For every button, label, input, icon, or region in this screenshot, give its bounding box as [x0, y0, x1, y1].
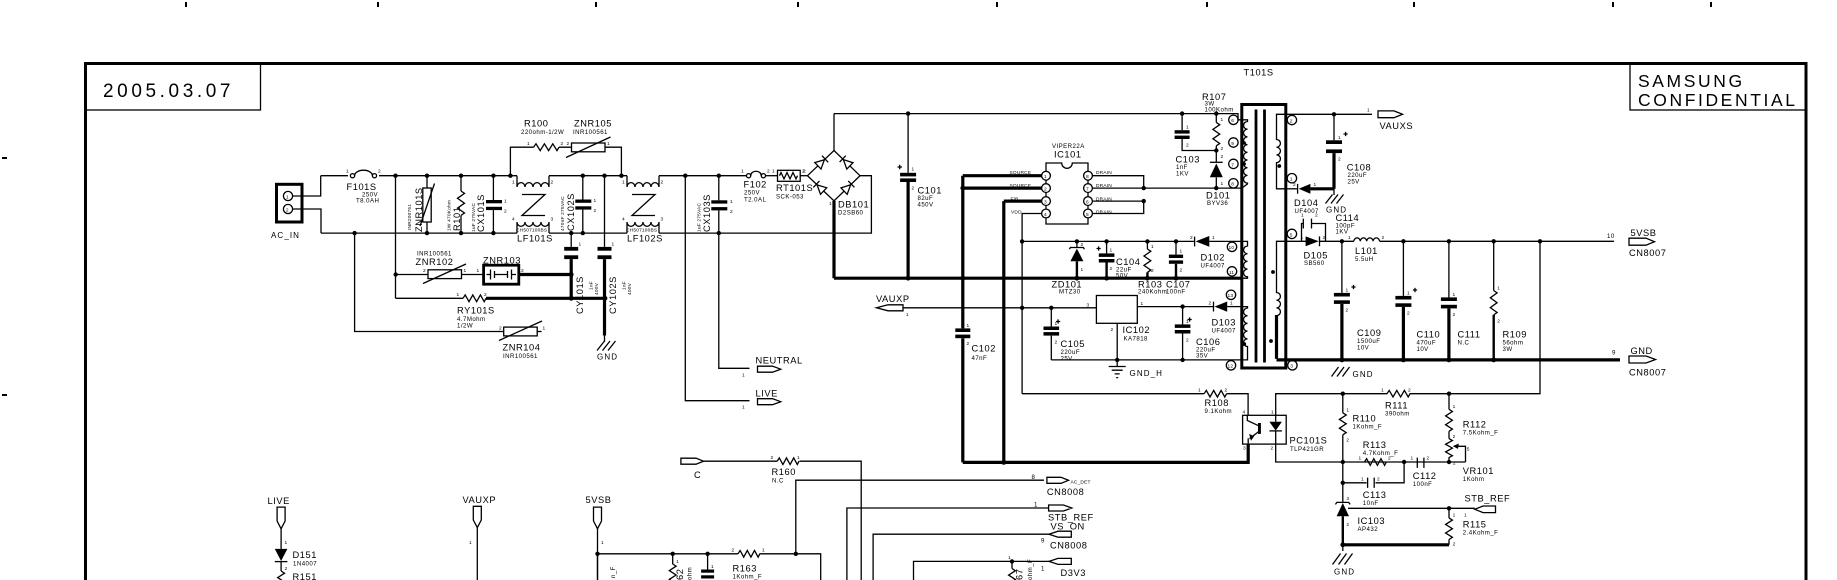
node C105 top: [1049, 306, 1053, 310]
svg-text:GND: GND: [597, 353, 618, 362]
diode D102: [1195, 236, 1242, 247]
net arrow AC_DET: [1047, 477, 1069, 483]
svg-text:2: 2: [594, 208, 597, 214]
svg-text:2: 2: [1110, 266, 1113, 272]
capacitor CX102S: [575, 176, 591, 233]
wire AC_IN pin1 to top rail: [293, 176, 321, 196]
svg-text:1: 1: [286, 194, 289, 200]
svg-text:2: 2: [1290, 118, 1293, 124]
resistor R108: [1204, 390, 1226, 397]
wire cap at 597 down: [597, 554, 599, 580]
svg-text:2: 2: [561, 141, 564, 147]
svg-text:1: 1: [1055, 321, 1058, 327]
svg-text:1: 1: [594, 198, 597, 204]
svg-text:2: 2: [1315, 213, 1318, 219]
node top rail x621 (R100 loop right): [619, 174, 623, 178]
DB101 diode top-right: [840, 156, 853, 169]
net arrow 5VSB: [1629, 238, 1655, 245]
node bold x571 on RY line: [569, 296, 574, 301]
svg-text:2: 2: [1346, 438, 1349, 444]
svg-text:62: 62: [675, 569, 685, 580]
transformer pin number 13: [1226, 290, 1235, 299]
resistor R109: [1490, 241, 1497, 360]
diode D151: [275, 549, 288, 571]
wire drain pin5: [1092, 201, 1143, 213]
IC101 pin 1: [1042, 171, 1051, 180]
svg-text:F102: F102: [744, 180, 767, 190]
svg-text:C111: C111: [1458, 330, 1481, 340]
svg-text:C: C: [694, 470, 701, 480]
svg-text:INR100561: INR100561: [573, 129, 608, 136]
svg-text:100nF: 100nF: [1166, 289, 1186, 296]
svg-text:SB560: SB560: [1304, 260, 1325, 267]
svg-text:ohm: ohm: [687, 567, 694, 580]
wire VDD pullup to R108: [1022, 393, 1204, 395]
node bold x605 on RY line: [603, 296, 608, 301]
node 5VSB bottom line: [595, 552, 599, 556]
svg-text:1: 1: [711, 564, 714, 570]
svg-text:1: 1: [1221, 181, 1224, 187]
svg-text:5: 5: [1290, 232, 1293, 238]
svg-text:VDD: VDD: [1011, 209, 1022, 215]
svg-text:3W: 3W: [1503, 346, 1513, 353]
svg-text:T2.0AL: T2.0AL: [744, 197, 767, 204]
wire 5VSB rail: [1380, 240, 1615, 242]
svg-text:CN8007: CN8007: [1629, 248, 1666, 258]
svg-text:8: 8: [1032, 474, 1036, 481]
AC_IN pin 1 circle: [283, 191, 292, 200]
node ZNR102 line x395: [394, 272, 398, 276]
svg-text:2: 2: [1453, 461, 1456, 467]
resistor R163: [738, 551, 760, 558]
choke LF102S bottom winding: [627, 222, 659, 233]
svg-text:1: 1: [1008, 555, 1011, 561]
svg-text:SOURCE: SOURCE: [1010, 183, 1032, 189]
svg-text:DB101: DB101: [838, 200, 869, 210]
wire bold ZNR103 to CY101S: [519, 273, 571, 276]
svg-text:1: 1: [469, 540, 472, 546]
node VDD-VAUXP junction: [1020, 306, 1024, 310]
svg-text:AC_DET: AC_DET: [1071, 480, 1091, 486]
wire bold FB to IC101 pin3: [1004, 200, 1042, 203]
node top rail x427: [425, 174, 429, 178]
transformer secondary winding pins 5-3: [1277, 241, 1286, 315]
svg-text:R163: R163: [733, 564, 757, 574]
svg-text:1: 1: [346, 169, 349, 175]
svg-text:1: 1: [1141, 301, 1144, 307]
svg-text:1: 1: [1453, 292, 1456, 298]
svg-text:2: 2: [967, 341, 970, 347]
node drain line D101: [1214, 186, 1218, 190]
svg-text:2: 2: [1180, 268, 1183, 274]
svg-text:D3V3: D3V3: [1061, 568, 1086, 578]
wire top rail LF101S to LF102S: [549, 175, 627, 177]
svg-text:1: 1: [1346, 408, 1349, 414]
transformer aux winding pins 10-11: [1242, 241, 1248, 278]
svg-text:10: 10: [1607, 233, 1615, 240]
svg-text:1: 1: [1348, 235, 1351, 241]
svg-text:LIVE: LIVE: [756, 389, 778, 399]
wire F102 to RT101S: [766, 175, 778, 177]
svg-text:ZNR103: ZNR103: [483, 256, 521, 266]
wire GND_H rail: [1051, 359, 1242, 361]
IC101 pin 4: [1042, 209, 1051, 218]
DB101 diode bottom-right: [841, 181, 854, 194]
IC101 pin 7: [1084, 184, 1093, 193]
svg-text:1: 1: [512, 180, 515, 186]
svg-text:1: 1: [1453, 404, 1456, 410]
varistor ZNR102: [423, 264, 466, 284]
svg-text:2: 2: [1346, 308, 1349, 314]
svg-text:1: 1: [742, 373, 745, 379]
svg-text:R160: R160: [772, 467, 796, 477]
capacitor C109: [1334, 241, 1356, 360]
wire R108 to opto collector: [1227, 394, 1249, 416]
wire NEUTRAL tap down: [719, 233, 750, 368]
node top rail x685 (LIVE tap): [683, 174, 687, 178]
wire divider top to 5VSB: [1449, 241, 1540, 393]
svg-text:1: 1: [1314, 182, 1317, 188]
wire bold IC103 cathode rail: [1343, 543, 1449, 546]
node GND rail C109: [1340, 358, 1345, 363]
wire top AC rail left of fuse: [321, 175, 348, 177]
diode D103: [1214, 302, 1242, 312]
PC101S phototransistor: [1247, 415, 1261, 444]
connector AC_IN body: [277, 184, 303, 222]
node divider mid R110: [1341, 460, 1345, 464]
svg-text:2: 2: [730, 209, 733, 215]
svg-text:13: 13: [1228, 293, 1234, 299]
svg-text:4: 4: [1243, 410, 1246, 416]
svg-text:2: 2: [1055, 340, 1058, 346]
capacitor C108 electrolytic: [1326, 114, 1348, 189]
svg-text:KA7818: KA7818: [1124, 336, 1149, 343]
svg-text:R101: R101: [452, 207, 462, 231]
node bold rail C107: [1174, 276, 1179, 281]
wire AC_IN pin2 to bottom rail: [293, 209, 321, 233]
node bold IC103 gnd: [1340, 542, 1345, 547]
svg-text:1: 1: [1411, 456, 1414, 462]
svg-text:1: 1: [601, 540, 604, 546]
capacitor C105 electrolytic: [1044, 308, 1061, 360]
svg-text:ZNR104: ZNR104: [503, 343, 541, 353]
svg-text:1KV: 1KV: [1336, 228, 1349, 235]
svg-text:3: 3: [551, 217, 554, 223]
diode D105: [1306, 236, 1354, 246]
svg-text:T101S: T101S: [1244, 68, 1274, 78]
svg-text:1nF: 1nF: [589, 281, 595, 290]
op-amp/SMPS IC101 VIPER22A body: [1046, 163, 1088, 224]
svg-text:C106: C106: [1196, 337, 1220, 347]
node C112 right VR101: [1447, 460, 1451, 464]
svg-text:2: 2: [551, 180, 554, 186]
transformer pin number 10: [1227, 242, 1236, 251]
svg-text:2: 2: [1497, 319, 1500, 325]
node bottom rail x461: [459, 231, 463, 235]
svg-text:2: 2: [423, 268, 426, 274]
resistor R167 pulldown: [1009, 561, 1016, 580]
node R112 top: [1447, 392, 1451, 396]
svg-text:1: 1: [579, 242, 582, 248]
svg-text:5VSB: 5VSB: [1631, 228, 1657, 238]
wire R100 bypass loop: [510, 147, 621, 176]
svg-text:1: 1: [1110, 248, 1113, 254]
wire bold RY101S to primary gnd: [486, 297, 605, 300]
svg-text:2: 2: [1377, 477, 1380, 483]
svg-text:VAUXP: VAUXP: [463, 495, 497, 505]
svg-text:25V: 25V: [1348, 179, 1361, 186]
svg-text:4: 4: [1044, 212, 1047, 218]
svg-text:2: 2: [499, 326, 502, 332]
node bold rail ZD101: [1075, 276, 1080, 281]
svg-text:2: 2: [1209, 301, 1212, 307]
svg-text:GND: GND: [1353, 370, 1374, 379]
AC_IN pin 2 circle: [283, 204, 292, 213]
transformer pin number 11: [1227, 267, 1236, 276]
fuse F102: [747, 171, 766, 178]
wire LIVE tap down: [685, 176, 749, 401]
svg-text:ZNR102: ZNR102: [416, 257, 454, 267]
regulator IC102 body: [1096, 296, 1137, 324]
node bottom rail x493: [491, 231, 495, 235]
capacitor C164: [701, 554, 714, 579]
svg-text:1/2W: 1/2W: [457, 323, 473, 330]
svg-text:50V: 50V: [1116, 273, 1129, 280]
svg-text:CN8008: CN8008: [1050, 541, 1087, 551]
wire C to R160: [704, 460, 778, 462]
arrester ZNR103: [484, 265, 519, 284]
svg-text:2: 2: [767, 169, 770, 175]
svg-text:2: 2: [378, 169, 381, 175]
wire ZNR102 left lead: [396, 274, 428, 276]
transformer pin number 2: [1287, 115, 1296, 124]
net arrow C: [681, 458, 704, 464]
net arrow VAUXP down: [473, 506, 481, 527]
wire opto LED anode up to divider: [1276, 444, 1466, 462]
svg-text:7: 7: [1086, 186, 1089, 192]
node R113-C112 mid: [1402, 460, 1406, 464]
svg-text:2: 2: [1044, 186, 1047, 192]
svg-text:1: 1: [772, 169, 775, 175]
svg-text:1KV: 1KV: [1176, 171, 1189, 178]
date box: [86, 64, 261, 111]
svg-text:2: 2: [1225, 388, 1228, 394]
svg-text:R109: R109: [1503, 330, 1527, 340]
wire DC plus line to transformer: [834, 114, 1242, 120]
svg-text:CX101S: CX101S: [476, 194, 486, 232]
capacitor CX103S: [711, 176, 727, 233]
svg-text:5: 5: [1467, 447, 1470, 453]
thermistor RT101S: [778, 170, 801, 181]
node R110 top: [1341, 392, 1345, 396]
svg-text:1: 1: [1221, 117, 1224, 123]
IC101 pin 8: [1084, 171, 1093, 180]
svg-text:10: 10: [1229, 245, 1235, 251]
node top rail x395: [393, 174, 397, 178]
ground GND primary: [597, 336, 616, 351]
svg-text:D103: D103: [1212, 318, 1236, 328]
resistor R100: [534, 144, 560, 151]
svg-text:2: 2: [1186, 338, 1189, 344]
svg-text:VR101: VR101: [1463, 466, 1494, 476]
svg-text:2: 2: [1221, 154, 1224, 160]
svg-text:2: 2: [1453, 542, 1456, 548]
zener ZD101: [1069, 241, 1084, 278]
svg-text:N.C: N.C: [1458, 339, 1470, 346]
wire bold opto emitter to FB net: [963, 444, 1250, 462]
ground GND secondary rail: [1332, 367, 1350, 377]
net arrow LIVE: [758, 399, 781, 405]
node drain junction pin6: [1142, 199, 1146, 203]
bridge rectifier DB101 diamond: [808, 151, 861, 201]
svg-text:CX103S: CX103S: [702, 194, 712, 232]
LF101S core Z symbol: [522, 195, 545, 216]
svg-text:2: 2: [661, 180, 664, 186]
wire VDD pin4 to rail: [1022, 214, 1041, 394]
node C164 top: [705, 552, 709, 556]
svg-text:IC101: IC101: [1054, 150, 1082, 160]
svg-text:1: 1: [906, 312, 909, 318]
svg-text:BYV36: BYV36: [1207, 200, 1228, 207]
svg-text:1: 1: [607, 141, 610, 147]
svg-text:IC102: IC102: [1123, 325, 1151, 335]
svg-text:25V: 25V: [1061, 356, 1074, 363]
svg-text:R113: R113: [1363, 440, 1387, 450]
svg-text:LF102S: LF102S: [627, 234, 663, 244]
resistor R101: [458, 176, 465, 233]
wire bold bridge minus down: [832, 201, 835, 278]
svg-text:400V: 400V: [594, 282, 600, 295]
wire pin2 to VAUXS: [1286, 113, 1372, 115]
capacitor C114: [1302, 219, 1326, 242]
svg-text:D151: D151: [293, 550, 317, 560]
svg-text:CN8008: CN8008: [1047, 487, 1084, 497]
svg-text:R110: R110: [1353, 414, 1377, 424]
svg-text:1: 1: [829, 201, 832, 207]
winding tap dot 7: [1243, 162, 1246, 165]
svg-text:12: 12: [1228, 364, 1234, 370]
SAMSUNG CONFIDENTIAL box: [1630, 64, 1806, 111]
wire STB_REF to arrow: [1449, 507, 1475, 509]
capacitor C111: [1441, 241, 1457, 360]
fuse F101S: [350, 170, 376, 178]
node bottom rail x582: [581, 231, 585, 235]
svg-text:1: 1: [1407, 291, 1410, 297]
svg-text:C113: C113: [1363, 490, 1387, 500]
svg-text:240Kohm: 240Kohm: [1138, 289, 1167, 296]
svg-text:UF4007: UF4007: [1201, 263, 1226, 270]
svg-text:250V: 250V: [744, 190, 761, 197]
wire vertical live-tap x395 to surge network: [395, 176, 397, 299]
svg-text:1: 1: [1497, 286, 1500, 292]
svg-text:1Kohm: 1Kohm: [1463, 476, 1485, 483]
svg-text:3: 3: [1044, 199, 1047, 205]
resistor R107: [1213, 114, 1220, 151]
svg-text:MTZ30: MTZ30: [1059, 289, 1081, 296]
node GND rail C110: [1401, 358, 1406, 363]
node rail ZD101: [1075, 239, 1079, 243]
svg-text:1: 1: [504, 199, 507, 205]
net arrow VAUXP (mid): [877, 305, 904, 311]
svg-text:1: 1: [676, 559, 679, 565]
svg-text:9: 9: [1231, 141, 1234, 147]
node GND rail R109: [1491, 358, 1496, 363]
svg-text:C104: C104: [1116, 257, 1140, 267]
svg-text:1: 1: [1081, 267, 1084, 273]
svg-text:2: 2: [1271, 446, 1274, 452]
svg-text:D2SB60: D2SB60: [838, 210, 864, 217]
wire bold primary return rail: [834, 277, 1242, 280]
svg-text:450V: 450V: [918, 202, 935, 209]
svg-text:11: 11: [1229, 270, 1235, 276]
svg-text:F/B: F/B: [1011, 196, 1019, 202]
svg-text:2: 2: [1190, 235, 1193, 241]
svg-text:n_F: n_F: [610, 566, 617, 578]
svg-text:N.C: N.C: [772, 478, 784, 485]
capacitor C110: [1395, 241, 1417, 360]
svg-text:1: 1: [1290, 177, 1293, 183]
shunt regulator IC103: [1335, 483, 1449, 545]
node C113 left junction: [1341, 481, 1345, 485]
svg-text:1: 1: [1359, 456, 1362, 462]
svg-text:LF101S: LF101S: [517, 234, 553, 244]
svg-text:9: 9: [1041, 538, 1045, 545]
svg-text:1: 1: [1041, 566, 1045, 573]
svg-text:6: 6: [1231, 118, 1234, 124]
node 5VSB rail C110: [1401, 239, 1405, 243]
svg-text:TLP421GR: TLP421GR: [1290, 446, 1324, 453]
svg-text:CONFIDENTIAL: CONFIDENTIAL: [1638, 90, 1798, 110]
net arrow VAUXS: [1378, 111, 1403, 118]
svg-text:8: 8: [1086, 174, 1089, 180]
svg-text:1Kohm_F: 1Kohm_F: [733, 574, 763, 580]
svg-text:SCK-053: SCK-053: [776, 194, 804, 201]
node bottom rail x427: [425, 231, 429, 235]
resistor RY101S: [463, 295, 486, 302]
svg-text:7: 7: [1231, 162, 1234, 168]
wire pin5 line: [1286, 240, 1306, 242]
capacitor C107: [1169, 241, 1183, 278]
svg-text:R108: R108: [1205, 398, 1229, 408]
IC101 pin 2: [1042, 184, 1051, 193]
node C101 top: [906, 111, 910, 115]
svg-text:INR100561: INR100561: [503, 353, 538, 360]
wire 5VSB bottom distribution line: [598, 554, 821, 580]
node AC_DET to 5VSB line: [794, 552, 798, 556]
wire bridge plus output up: [833, 114, 835, 151]
transformer core lines: [1256, 110, 1265, 363]
svg-text:2: 2: [912, 186, 915, 192]
svg-text:5.5uH: 5.5uH: [1355, 256, 1374, 263]
resistor R111: [1343, 390, 1449, 397]
node bottom rail x718: [717, 231, 721, 235]
node VDD rail junction: [1020, 239, 1024, 243]
capacitor C106 electrolytic: [1175, 307, 1192, 360]
svg-text:390ohm: 390ohm: [1385, 411, 1410, 418]
resistor R112: [1446, 394, 1453, 439]
svg-text:9: 9: [1612, 350, 1616, 357]
capacitor C104 electrolytic: [1097, 241, 1115, 278]
node GND_H IC102: [1115, 358, 1119, 362]
node snubber top line R107: [1214, 111, 1218, 115]
secondary 5-3 polarity dot: [1269, 339, 1273, 343]
node top rail x582 (CX102S): [581, 174, 585, 178]
svg-text:2: 2: [567, 141, 570, 147]
svg-text:1: 1: [967, 323, 970, 329]
svg-text:400V: 400V: [627, 282, 633, 295]
svg-text:INR200751: INR200751: [407, 204, 413, 230]
resistor R103: [1144, 241, 1151, 278]
